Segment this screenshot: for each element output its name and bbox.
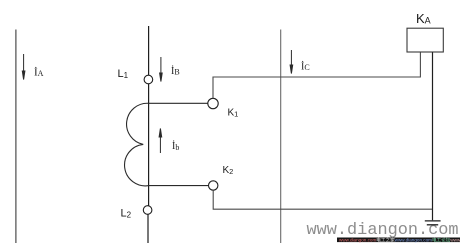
svg-text:L1: L1 bbox=[118, 68, 129, 80]
wire relay pin 2 down to ground bbox=[432, 52, 434, 220]
wire phase A vertical line bbox=[15, 30, 17, 243]
ground symbol bbox=[425, 221, 441, 225]
terminal L1 bbox=[144, 75, 153, 84]
svg-text:KA: KA bbox=[416, 11, 431, 26]
footer dark banner bbox=[337, 238, 460, 243]
svg-text:K2: K2 bbox=[223, 165, 234, 176]
svg-text:İA: İA bbox=[34, 67, 44, 79]
svg-text:İC: İC bbox=[301, 61, 310, 73]
arrow IB current direction bbox=[160, 57, 163, 82]
wire K2 to phase B line bbox=[149, 185, 208, 187]
winding primary arc lower bbox=[125, 144, 149, 185]
terminal K1 bbox=[208, 98, 218, 108]
svg-text:K1: K1 bbox=[228, 108, 239, 119]
svg-text:İb: İb bbox=[172, 140, 179, 152]
svg-text:L2: L2 bbox=[121, 208, 132, 220]
wire K1 up to relay bus bbox=[213, 52, 420, 98]
terminal L2 bbox=[143, 206, 152, 215]
wire phase B vertical line through winding bbox=[148, 84, 150, 206]
wire K2 down and right to ground bus bbox=[213, 190, 432, 209]
svg-text:www.diangon.com电工之家www.diangon: www.diangon.com电工之家www.diangon.com电工论坛ww… bbox=[339, 236, 460, 243]
terminal K2 bbox=[209, 181, 218, 190]
arrow Ib induced current direction bbox=[159, 129, 162, 154]
wire phase B vertical line bottom bbox=[147, 214, 149, 243]
wire phase C vertical line bbox=[280, 30, 282, 243]
relay KA box bbox=[407, 28, 443, 52]
svg-text:İB: İB bbox=[171, 65, 180, 77]
wire phase B vertical line top bbox=[148, 26, 150, 75]
winding primary arc upper bbox=[127, 103, 149, 144]
arrow IC current direction bbox=[290, 50, 293, 74]
wire K1 to phase B line bbox=[149, 102, 208, 104]
arrow IA current direction bbox=[22, 54, 25, 80]
